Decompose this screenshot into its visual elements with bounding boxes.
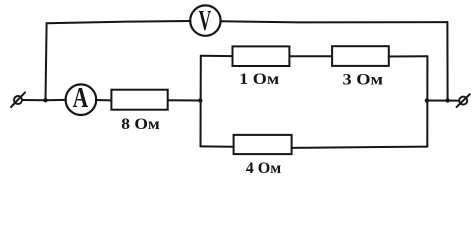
wire resistor 1 Ом to resistor 3 Ом bbox=[289, 55, 332, 57]
wire top branch to resistor 1 Ом bbox=[201, 55, 233, 57]
svg-text:1 Ом: 1 Ом bbox=[239, 71, 279, 88]
terminal left bbox=[11, 92, 25, 107]
wire junction A to ammeter bbox=[46, 99, 67, 101]
wire bottom branch to resistor 4 Ом bbox=[201, 145, 234, 147]
svg-text:8 Ом: 8 Ом bbox=[121, 116, 160, 133]
resistor R4 (4 Ом) bbox=[234, 135, 292, 154]
wire resistor 3 Ом to right vertical bbox=[389, 55, 428, 57]
resistor R3 (3 Ом) bbox=[332, 46, 389, 66]
terminal right bbox=[457, 94, 470, 107]
resistor R1 (8 Ом) bbox=[111, 90, 167, 110]
wire top rail left segment to voltmeter bbox=[47, 21, 191, 23]
wire junction A up to top rail bbox=[46, 23, 47, 100]
wire junction C to right terminal bbox=[427, 100, 459, 102]
svg-text:V: V bbox=[199, 6, 212, 37]
wire left vertical of parallel section bbox=[200, 56, 202, 147]
wire resistor 8 Ом to junction D bbox=[168, 99, 201, 101]
junction C (right vertical to output wire) bbox=[425, 98, 429, 102]
wire resistor 4 Ом to right vertical bbox=[292, 147, 428, 148]
wire right vertical of parallel section bbox=[426, 56, 428, 146]
resistor R2 (1 Ом) bbox=[233, 46, 290, 66]
junction A bbox=[43, 98, 47, 102]
wire left terminal to junction A bbox=[22, 99, 45, 101]
wire top rail right segment from voltmeter to corner bbox=[221, 21, 448, 22]
svg-text:4 Ом: 4 Ом bbox=[246, 160, 282, 177]
wire right vertical from top rail down to junction B bbox=[446, 22, 448, 100]
svg-text:3 Ом: 3 Ом bbox=[343, 72, 384, 89]
junction D (parallel section input) bbox=[198, 98, 202, 102]
junction B (top rail drop joins output wire) bbox=[445, 98, 449, 102]
svg-text:A: A bbox=[73, 83, 89, 114]
wire ammeter to resistor 8 Ом bbox=[96, 99, 111, 101]
ammeter U2 (A) bbox=[66, 84, 97, 115]
voltmeter U1 (V) bbox=[190, 5, 220, 35]
